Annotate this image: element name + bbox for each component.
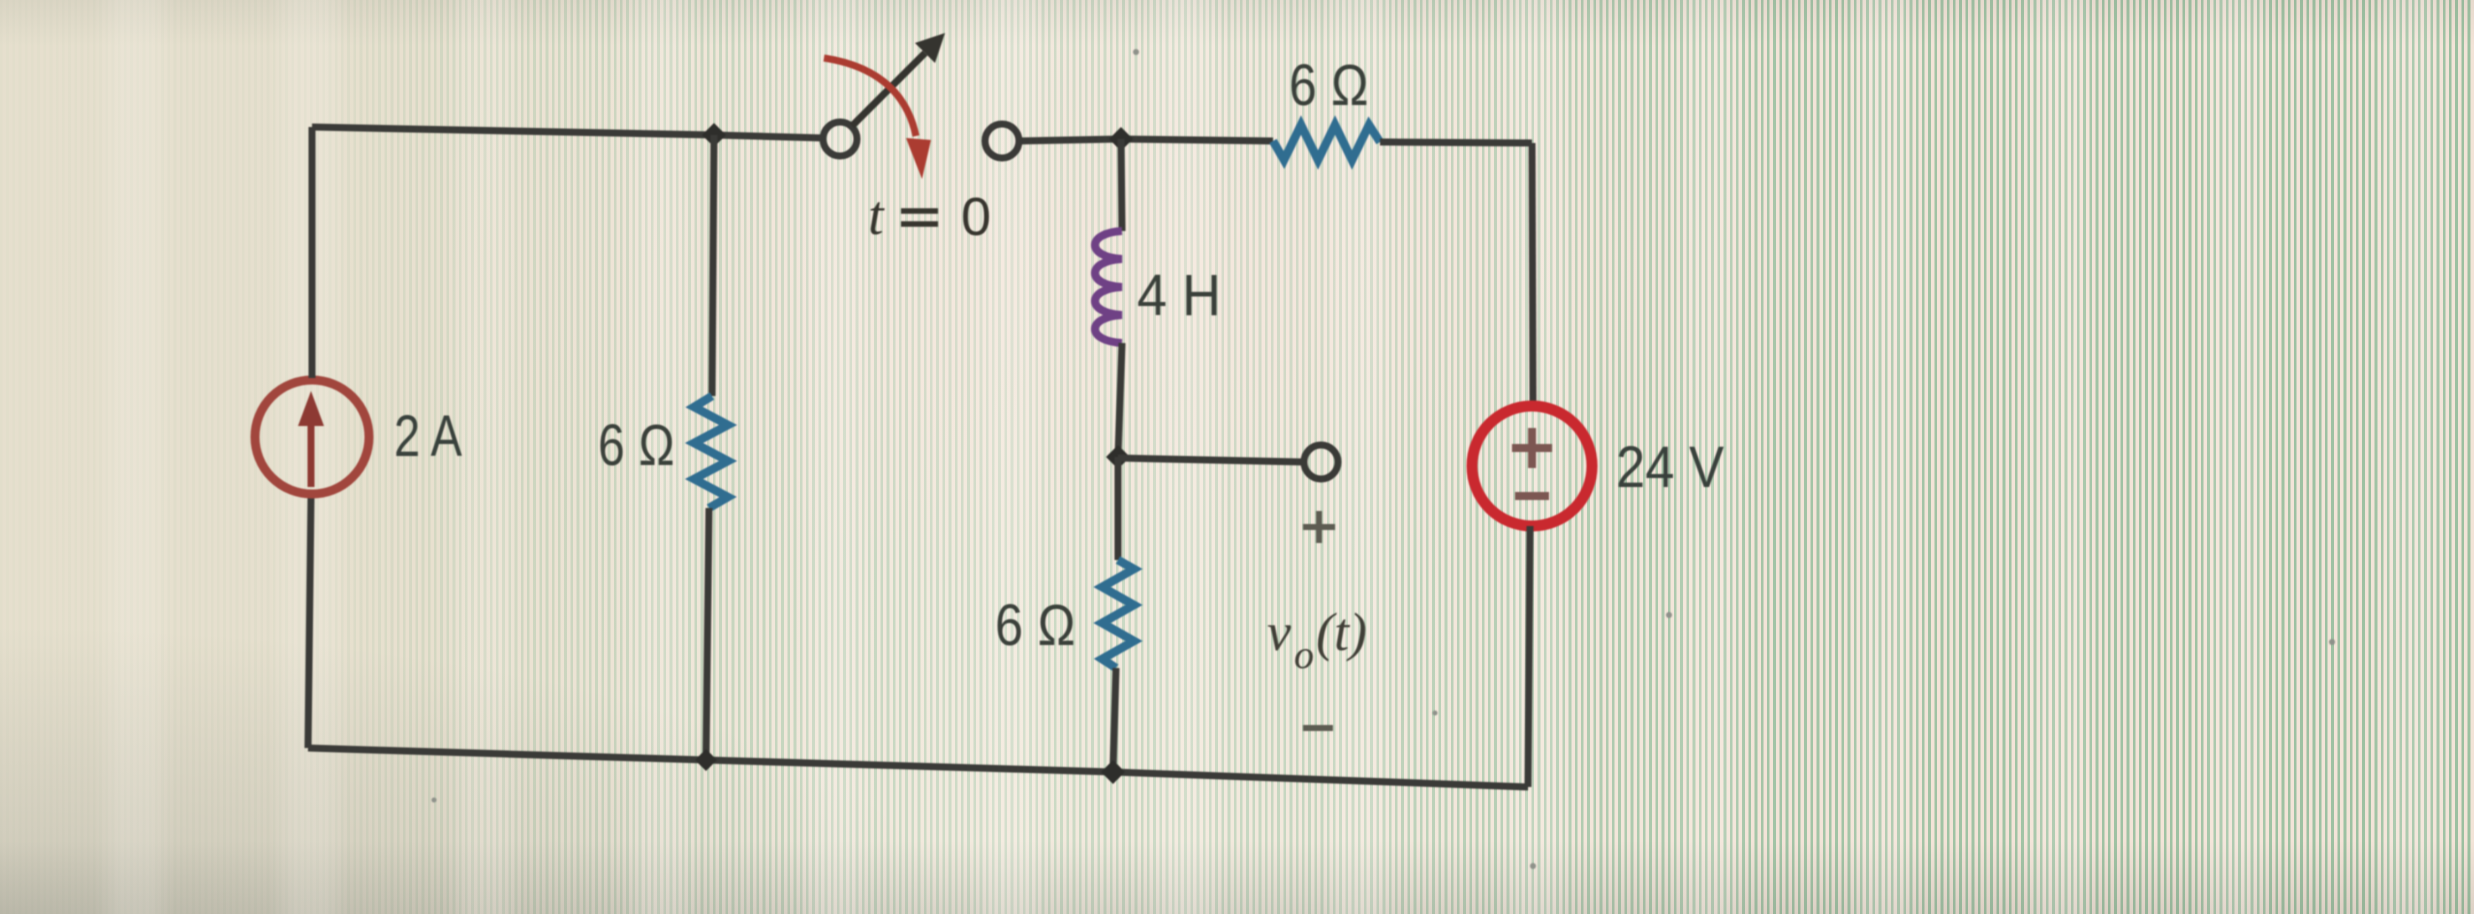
dust specks: [432, 49, 2336, 869]
wire left side lower: [308, 497, 311, 748]
wire node B to resistor R-top: [1121, 139, 1273, 141]
label 6 ohm left: [598, 413, 675, 478]
svg-text:o: o: [1294, 632, 1314, 677]
wire top-left segment: [312, 127, 714, 135]
switch throw circle: [985, 124, 1019, 158]
wire bottom right segment: [1113, 772, 1528, 787]
svg-text:6 Ω: 6 Ω: [1289, 53, 1369, 118]
node E junction dot: [1106, 445, 1130, 469]
resistor 6ohm middle (blue zigzag vertical): [1102, 560, 1134, 668]
label 6 ohm top: [1289, 53, 1369, 118]
wire node E down to resistor: [1115, 457, 1122, 560]
svg-text:2 A: 2 A: [394, 404, 462, 469]
wire right side upper: [1532, 143, 1533, 406]
wire bottom middle segment: [706, 760, 1113, 772]
svg-text:v: v: [1267, 602, 1291, 662]
inductor L1 4H (purple coil): [1095, 231, 1122, 343]
label t = 0: [868, 185, 991, 247]
wire right side lower: [1528, 526, 1530, 787]
label 2 A: [394, 404, 462, 469]
wire node E to output terminal: [1118, 458, 1304, 462]
wire node B down to inductor: [1121, 139, 1122, 231]
svg-text:0: 0: [961, 187, 991, 247]
node B junction dot: [1109, 127, 1133, 151]
wire switch to node B: [1019, 139, 1121, 141]
output terminal circle: [1304, 445, 1338, 479]
node A junction dot: [702, 123, 726, 147]
current source I1 2A circle with up arrow: [255, 380, 369, 494]
switch pole circle: [823, 122, 857, 156]
switch lever with arrow: [852, 33, 945, 126]
wire bottom left segment: [308, 748, 706, 760]
switch closing arc t=0 (red): [824, 58, 931, 179]
svg-text:6 Ω: 6 Ω: [995, 593, 1076, 658]
label 24 V: [1616, 435, 1724, 500]
svg-text:4 H: 4 H: [1137, 263, 1221, 328]
label minus sign vo: [1303, 725, 1333, 731]
wire left side upper: [309, 127, 316, 378]
svg-text:6 Ω: 6 Ω: [598, 413, 675, 478]
label 4 H: [1137, 263, 1221, 328]
resistor 6ohm top (blue zigzag): [1273, 125, 1380, 160]
svg-text:(t): (t): [1316, 602, 1367, 662]
svg-text:t: t: [868, 185, 885, 247]
svg-text:24 V: 24 V: [1616, 435, 1724, 500]
node C junction dot: [695, 749, 717, 771]
wire resistor left down to node C: [706, 508, 709, 760]
resistor 6ohm left (blue zigzag vertical): [694, 396, 728, 508]
wire inductor to node E: [1118, 343, 1122, 457]
wire branch node A down: [712, 135, 714, 396]
node D junction dot: [1101, 760, 1125, 784]
voltage source V1 24V circle: [1472, 406, 1592, 526]
wire node A to switch: [714, 135, 823, 138]
wire resistor to top-right corner: [1380, 142, 1532, 143]
label 6 ohm middle: [995, 593, 1076, 658]
label plus sign vo: [1303, 511, 1335, 543]
wire resistor middle down to node D: [1113, 668, 1116, 772]
label vo(t): [1267, 602, 1367, 677]
